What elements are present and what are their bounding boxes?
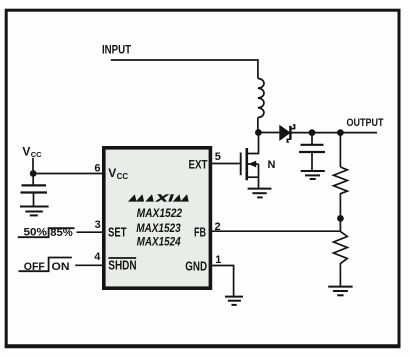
svg-text:INPUT: INPUT bbox=[102, 45, 131, 57]
wire node A to diode bbox=[258, 132, 280, 134]
node FB junction dot bbox=[337, 215, 344, 222]
wire OUTPUT node down to R1 bbox=[339, 133, 341, 167]
svg-text:CC: CC bbox=[31, 150, 42, 159]
ground under C2 bbox=[301, 171, 325, 179]
op-amp U1 (IC MAX1522/3/4 body) bbox=[104, 148, 211, 288]
capacitor C1 bottom plate bbox=[21, 191, 48, 193]
transistor Q1 body arrow bbox=[248, 161, 256, 168]
SET waveform step symbol bbox=[18, 228, 75, 237]
wire INPUT to inductor bbox=[111, 60, 258, 79]
wire to SET pin 3 bbox=[77, 231, 104, 233]
MAXIM logo bbox=[128, 194, 191, 201]
ground under Q1 source bbox=[248, 189, 272, 198]
wire diode to OUTPUT rail bbox=[291, 132, 377, 134]
diode D1 schottky bottom hook bbox=[287, 139, 290, 142]
node VCC junction dot bbox=[30, 170, 37, 177]
svg-text:EXT: EXT bbox=[189, 157, 209, 171]
svg-text:5: 5 bbox=[215, 151, 221, 163]
svg-text:SET: SET bbox=[108, 226, 127, 240]
svg-text:1: 1 bbox=[215, 254, 221, 266]
diode D1 (schottky) anode triangle bbox=[280, 126, 290, 140]
SHDN waveform step symbol bbox=[19, 258, 72, 272]
ground under C1 bbox=[20, 207, 49, 216]
wire output cap bottom bbox=[311, 153, 313, 170]
capacitor C2 top plate bbox=[301, 144, 324, 146]
svg-text:SHDN: SHDN bbox=[108, 259, 136, 273]
resistor R1 (upper feedback) bbox=[334, 167, 348, 196]
svg-text:N: N bbox=[268, 159, 276, 171]
capacitor C1 top plate bbox=[22, 184, 47, 186]
svg-text:MAX1522: MAX1522 bbox=[137, 207, 183, 220]
wire VCC to pin 6 bbox=[33, 173, 103, 175]
svg-text:ON: ON bbox=[52, 261, 70, 273]
inductor L1 bbox=[258, 79, 264, 118]
wire C1 to ground bbox=[33, 193, 35, 206]
node OUTPUT junction dot bbox=[337, 129, 344, 136]
wire GND pin 1 to ground bbox=[212, 266, 234, 297]
svg-text:FB: FB bbox=[194, 226, 206, 240]
svg-text:2: 2 bbox=[215, 221, 221, 233]
svg-text:4: 4 bbox=[94, 251, 101, 263]
svg-text:6: 6 bbox=[94, 162, 100, 174]
wire VCC junction to C1 bbox=[32, 174, 34, 185]
wire EXT pin5 to gate bbox=[212, 163, 240, 165]
wire to SHDN pin 4 bbox=[75, 264, 103, 266]
wire FB pin2 to divider bbox=[212, 230, 340, 232]
svg-text:MAX1524: MAX1524 bbox=[137, 236, 181, 249]
ground under GND pin bbox=[225, 297, 243, 305]
svg-text:OUTPUT: OUTPUT bbox=[347, 117, 384, 129]
transistor Q1 N-MOSFET gate bar bbox=[240, 153, 242, 176]
svg-text:CC: CC bbox=[117, 172, 129, 181]
ground under R2 bbox=[328, 287, 352, 296]
resistor R2 (lower feedback) bbox=[334, 231, 348, 267]
capacitor C2 bottom plate bbox=[299, 151, 325, 153]
diode D1 cathode bar bbox=[289, 126, 291, 140]
wire R1 to FB junction bbox=[339, 196, 341, 231]
wire output cap top bbox=[311, 133, 313, 144]
transistor Q1 channel bar bbox=[246, 148, 249, 180]
svg-text:GND: GND bbox=[185, 260, 207, 274]
diode D1 schottky top hook bbox=[290, 125, 294, 129]
node A junction dot (LX node) bbox=[255, 129, 262, 136]
transistor Q1 source stub bbox=[248, 176, 259, 178]
transistor Q1 drain stub and wire to node A bbox=[248, 133, 259, 154]
wire R2 to ground bbox=[339, 267, 341, 286]
svg-text:3: 3 bbox=[95, 219, 101, 231]
svg-text:V: V bbox=[108, 166, 116, 180]
wire VCC label to junction bbox=[32, 158, 34, 174]
svg-text:MAX1523: MAX1523 bbox=[136, 222, 181, 235]
wire inductor to node A bbox=[257, 118, 259, 133]
wire source to ground bbox=[258, 164, 260, 188]
transistor Q1 body stub bbox=[248, 163, 259, 165]
node output-cap junction dot bbox=[309, 129, 316, 136]
svg-text:V: V bbox=[22, 144, 30, 158]
